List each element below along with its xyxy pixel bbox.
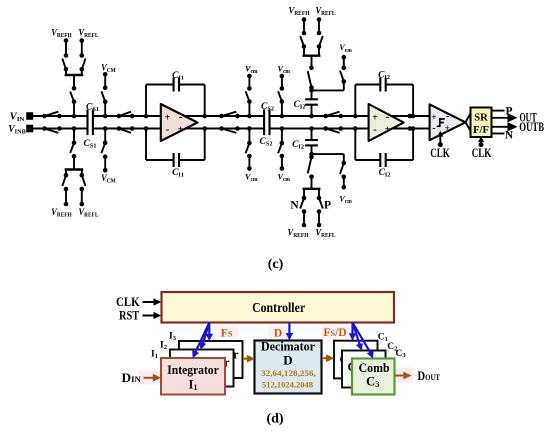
svg-text:+: + (372, 112, 378, 123)
svg-text:FS: FS (221, 328, 233, 340)
switch S1 top input (42, 112, 62, 119)
switch VREFL bottom (80, 173, 86, 186)
arrow Fs branch to I2 (199, 323, 209, 350)
wire feedback loop top U1 (144, 85, 207, 119)
block Integrator I1 (front) (161, 358, 225, 395)
artifact halos (decorative) (138, 325, 413, 390)
node stage2 ref top junction (309, 88, 314, 93)
wire merge bar stage1 top (65, 69, 84, 88)
arrow Fs/D branch to C3 (353, 323, 374, 359)
svg-text:OUTB: OUTB (519, 120, 544, 134)
switch phase stage2 ref top (308, 66, 314, 90)
block Comb C3 (front) (352, 359, 395, 395)
wire Vcm stub stage2 upper-right (342, 55, 347, 70)
svg-text:+: + (385, 124, 391, 135)
wire to rail / node bottom-ref (72, 126, 77, 143)
svg-text:Comb: Comb (359, 361, 390, 375)
switch VREFH top (62, 59, 68, 72)
wire VREFL stub bottom (80, 187, 85, 207)
wire VREFH stub top (64, 38, 69, 58)
block Controller (162, 292, 395, 323)
wire VREFL stub stage2 top (317, 17, 322, 35)
op-amp U2 (369, 104, 404, 141)
wire VREFH stub bottom (64, 187, 69, 207)
arrow comb to DOUT (395, 372, 412, 380)
switch S3 top after op-amp U1 (219, 112, 240, 119)
svg-text:FS/D: FS/D (323, 327, 346, 339)
svg-text:-: - (446, 111, 450, 122)
comparator U3 latched (430, 104, 466, 140)
arrow Fs/D controller to comb C1 (349, 323, 356, 341)
switch Vcm bottom b (278, 126, 284, 153)
switch Vcm stage2 upper-right (340, 71, 346, 84)
switch VCM bottom (101, 126, 107, 153)
switch P stage2 bottom (317, 196, 323, 209)
arrow integrator to decimator (243, 355, 255, 363)
svg-text:Controller: Controller (252, 300, 305, 315)
wire Vcm join stage2 top (312, 82, 344, 91)
svg-text:-: - (386, 111, 390, 123)
svg-text:Integrator: Integrator (167, 363, 219, 377)
svg-text:CLK: CLK (472, 145, 492, 160)
svg-text:CLK: CLK (116, 295, 140, 309)
input terminal VINB (26, 125, 33, 133)
wire VCM stub top (103, 72, 108, 90)
capacitor CI1 bottom (174, 153, 179, 167)
wire merge bar stage1 bottom (65, 156, 84, 175)
capacitor CI2 branch top (311, 90, 313, 99)
capacitor CS2 top (264, 109, 269, 122)
capacitor CS1 bottom (88, 122, 93, 135)
wire feedback loop bottom U1 (144, 126, 207, 160)
wire bottom rail segments (33, 128, 430, 130)
switch S4 bottom before op-amp U2 (323, 126, 343, 133)
svg-text:32,64,128,256,: 32,64,128,256, (261, 368, 316, 378)
wire VREFL stub stage2 bottom (317, 209, 322, 227)
op-amp U1 (161, 104, 198, 141)
svg-text:+: + (444, 124, 449, 134)
terminal arrow OUTB (508, 122, 518, 131)
switch S2 bottom before op-amp U1 (117, 126, 135, 133)
block Comb C2 (middle) (342, 351, 386, 389)
switch S3 bottom after op-amp U1 (219, 126, 240, 133)
switch VREFH bottom (62, 173, 68, 186)
svg-text:SR: SR (474, 112, 488, 123)
input terminal VIN (26, 112, 33, 120)
arrow decimator to comb (322, 354, 334, 362)
terminal arrow OUT (508, 113, 518, 122)
svg-text:N: N (290, 200, 299, 212)
svg-text:Decimator: Decimator (261, 340, 315, 354)
arrow DIN to integrator (144, 374, 162, 382)
svg-text:-: - (179, 111, 183, 123)
wire Vcm join stage2 bottom (312, 154, 344, 163)
switch phase stage1 ref bottom (70, 141, 76, 159)
switch Vcm top b (278, 91, 284, 118)
svg-text:512,1024,2048: 512,1024,2048 (262, 380, 314, 390)
svg-text:(d): (d) (266, 412, 283, 427)
capacitor CS1 top (88, 109, 93, 122)
svg-text:D: D (274, 328, 282, 340)
wire P output (492, 110, 505, 112)
switch phase stage1 ref top (70, 86, 76, 104)
wire to rail / node top-ref (72, 102, 77, 119)
switch VREFL top (80, 59, 86, 72)
capacitor CI2 feedback bottom (380, 153, 385, 167)
switch Vcm top a (246, 91, 252, 118)
wire Vcm stub stage2 lower-right (342, 174, 347, 189)
arrow CLK into controller (143, 298, 162, 305)
wire OUT output (492, 117, 509, 119)
switch VCM top (101, 91, 107, 118)
switch S4 top before op-amp U2 (323, 112, 343, 119)
svg-text:-: - (432, 123, 436, 134)
wire Vcm stub top b (280, 74, 285, 91)
capacitor CI2 feedback top (380, 78, 385, 92)
arrow Fs controller to integrators (vertical) (206, 323, 213, 342)
svg-text:+: + (178, 124, 184, 135)
svg-text:RST: RST (119, 309, 140, 323)
wire CI2 to rail bottom (309, 126, 314, 140)
arrow D controller to decimator (286, 323, 293, 341)
switch VREFH stage2 top (300, 36, 306, 49)
block Integrator I2 (middle) (170, 350, 234, 387)
wire VREFH stub stage2 bottom (302, 209, 307, 227)
switch Vcm bottom a (246, 126, 252, 153)
capacitor CI2 branch bottom (311, 145, 313, 154)
wire VREFL stub top (80, 38, 85, 58)
wire VREFH stub stage2 top (302, 17, 307, 35)
wire comparator to SR flip-flop (466, 113, 471, 131)
wire CI2 to rail top (309, 105, 314, 119)
wire top rail segments (33, 115, 430, 117)
svg-text:P: P (324, 200, 331, 212)
switch S2 top before op-amp U1 (117, 112, 135, 119)
block Integrator I3 (back) (179, 341, 243, 378)
switch N stage2 bottom (300, 196, 306, 209)
arrow Fs/D branch to C2 (353, 323, 363, 351)
wire Vcm stub top a (247, 74, 252, 91)
switch phase stage2 ref bottom (308, 155, 314, 179)
switch Vcm stage2 lower-right (340, 161, 346, 174)
svg-text:+: + (431, 113, 436, 123)
capacitor CS2 bottom (264, 122, 269, 135)
capacitor CI1 top (174, 78, 179, 92)
block Comb C1 (back) (334, 341, 378, 381)
svg-text:(c): (c) (268, 257, 284, 272)
arrow Fs branch to I1 (192, 323, 209, 359)
svg-text:-: - (166, 124, 170, 136)
switch VREFL stage2 top (317, 36, 323, 49)
svg-text:CLK: CLK (430, 145, 450, 160)
wire feedback loop top U2 (353, 85, 415, 119)
wire feedback loop bottom U2 (353, 126, 415, 160)
wire OUTB output (492, 126, 509, 128)
node stage2 ref bottom junction (309, 152, 314, 157)
wire CLK to flip-flop (478, 136, 484, 147)
svg-text:D: D (283, 353, 292, 368)
arrow RST into controller (143, 312, 162, 319)
wire Vcm stub bottom a (247, 154, 252, 171)
svg-text:N: N (505, 130, 514, 142)
wire CLK to comparator (437, 131, 443, 147)
wire VCM stub bottom (103, 154, 108, 172)
wire merge bar stage2 top (303, 47, 321, 68)
svg-text:F/F: F/F (473, 125, 489, 136)
wire merge bar stage2 bottom (303, 177, 321, 198)
wire Vcm stub bottom b (280, 154, 285, 171)
block Decimator D (255, 340, 322, 394)
flip-flop SR F/F (471, 108, 492, 138)
svg-text:+: + (165, 112, 171, 123)
switch S1 bottom input (42, 126, 62, 133)
svg-text:-: - (373, 124, 377, 136)
wire N output (492, 133, 505, 135)
